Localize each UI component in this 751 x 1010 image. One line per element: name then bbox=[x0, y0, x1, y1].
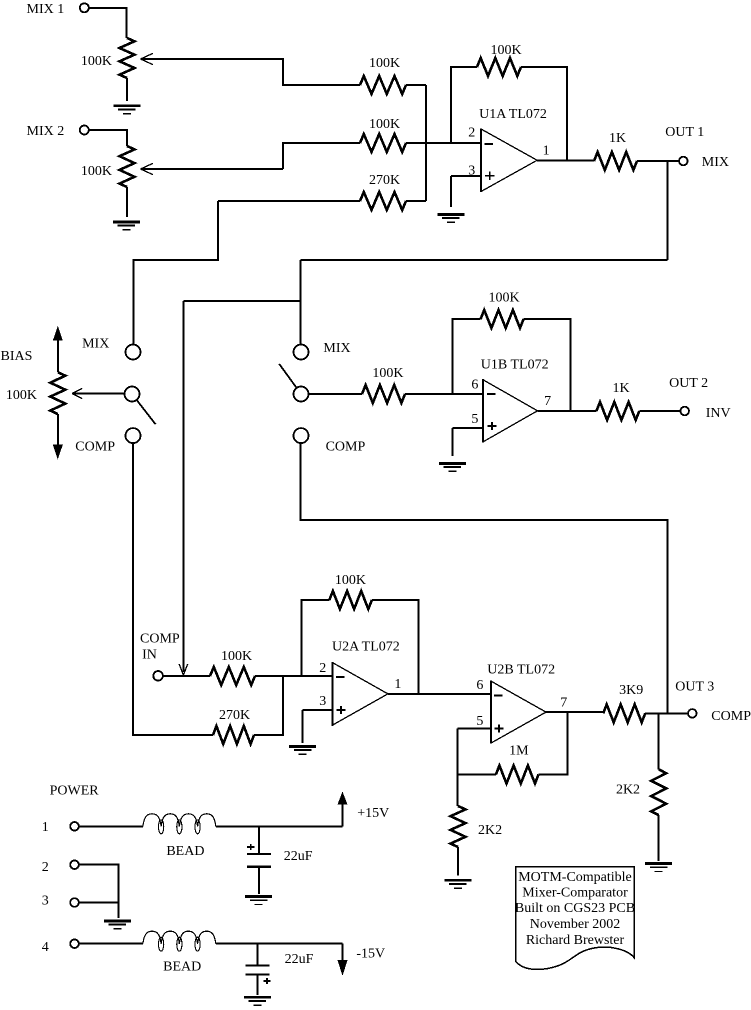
svg-text:MIX: MIX bbox=[323, 341, 350, 356]
svg-text:IN: IN bbox=[142, 648, 157, 663]
svg-text:5: 5 bbox=[471, 412, 478, 427]
svg-text:BEAD: BEAD bbox=[166, 844, 204, 859]
svg-text:100K: 100K bbox=[369, 117, 400, 132]
svg-text:100K: 100K bbox=[372, 366, 403, 381]
svg-text:100K: 100K bbox=[221, 649, 252, 664]
svg-text:+15V: +15V bbox=[357, 806, 389, 821]
svg-text:U1B TL072: U1B TL072 bbox=[481, 357, 549, 372]
svg-text:Richard Brewster: Richard Brewster bbox=[526, 933, 625, 948]
svg-text:POWER: POWER bbox=[50, 783, 100, 798]
svg-text:100K: 100K bbox=[81, 164, 112, 179]
svg-text:2K2: 2K2 bbox=[478, 823, 502, 838]
svg-text:4: 4 bbox=[42, 940, 49, 955]
svg-text:22uF: 22uF bbox=[285, 952, 314, 967]
svg-text:COMP: COMP bbox=[711, 709, 751, 724]
svg-text:1K: 1K bbox=[609, 131, 626, 146]
svg-text:U2A TL072: U2A TL072 bbox=[332, 640, 400, 655]
svg-text:OUT 3: OUT 3 bbox=[675, 680, 714, 695]
svg-text:6: 6 bbox=[471, 378, 478, 393]
svg-text:2: 2 bbox=[468, 125, 475, 140]
svg-text:100K: 100K bbox=[6, 388, 37, 403]
svg-text:U2B TL072: U2B TL072 bbox=[487, 662, 555, 677]
svg-text:U1A TL072: U1A TL072 bbox=[479, 107, 547, 122]
svg-text:MIX: MIX bbox=[82, 336, 109, 351]
svg-text:6: 6 bbox=[476, 678, 483, 693]
svg-text:BEAD: BEAD bbox=[163, 959, 201, 974]
svg-text:100K: 100K bbox=[488, 290, 519, 305]
svg-text:2: 2 bbox=[42, 860, 49, 875]
svg-text:OUT 1: OUT 1 bbox=[665, 125, 704, 140]
svg-text:OUT 2: OUT 2 bbox=[669, 376, 708, 391]
svg-text:1: 1 bbox=[42, 820, 49, 835]
svg-text:MIX: MIX bbox=[702, 155, 729, 170]
svg-text:2K2: 2K2 bbox=[616, 783, 640, 798]
svg-text:1M: 1M bbox=[509, 744, 529, 759]
svg-text:-15V: -15V bbox=[356, 947, 385, 962]
svg-text:100K: 100K bbox=[369, 56, 400, 71]
svg-text:INV: INV bbox=[706, 406, 731, 421]
svg-text:BIAS: BIAS bbox=[1, 349, 33, 364]
svg-text:November 2002: November 2002 bbox=[530, 917, 621, 932]
svg-text:3: 3 bbox=[319, 694, 326, 709]
svg-text:22uF: 22uF bbox=[284, 849, 313, 864]
svg-text:MIX 2: MIX 2 bbox=[27, 124, 65, 139]
svg-text:MIX 1: MIX 1 bbox=[27, 2, 65, 17]
svg-text:2: 2 bbox=[319, 661, 326, 676]
svg-text:1K: 1K bbox=[613, 381, 630, 396]
svg-text:COMP: COMP bbox=[75, 439, 115, 454]
svg-text:MOTM-Compatible: MOTM-Compatible bbox=[518, 870, 632, 885]
svg-text:5: 5 bbox=[476, 714, 483, 729]
svg-text:Mixer-Comparator: Mixer-Comparator bbox=[522, 886, 628, 901]
svg-text:100K: 100K bbox=[335, 573, 366, 588]
svg-text:Built on CGS23 PCB: Built on CGS23 PCB bbox=[515, 901, 635, 916]
svg-text:7: 7 bbox=[544, 394, 551, 409]
svg-text:100K: 100K bbox=[81, 54, 112, 69]
svg-text:270K: 270K bbox=[369, 173, 400, 188]
svg-text:COMP: COMP bbox=[326, 439, 366, 454]
svg-text:270K: 270K bbox=[219, 708, 250, 723]
svg-text:3: 3 bbox=[42, 894, 49, 909]
svg-text:1: 1 bbox=[394, 677, 401, 692]
svg-text:7: 7 bbox=[560, 696, 567, 711]
svg-text:COMP: COMP bbox=[140, 632, 180, 647]
svg-text:3K9: 3K9 bbox=[619, 683, 643, 698]
svg-text:1: 1 bbox=[543, 143, 550, 158]
